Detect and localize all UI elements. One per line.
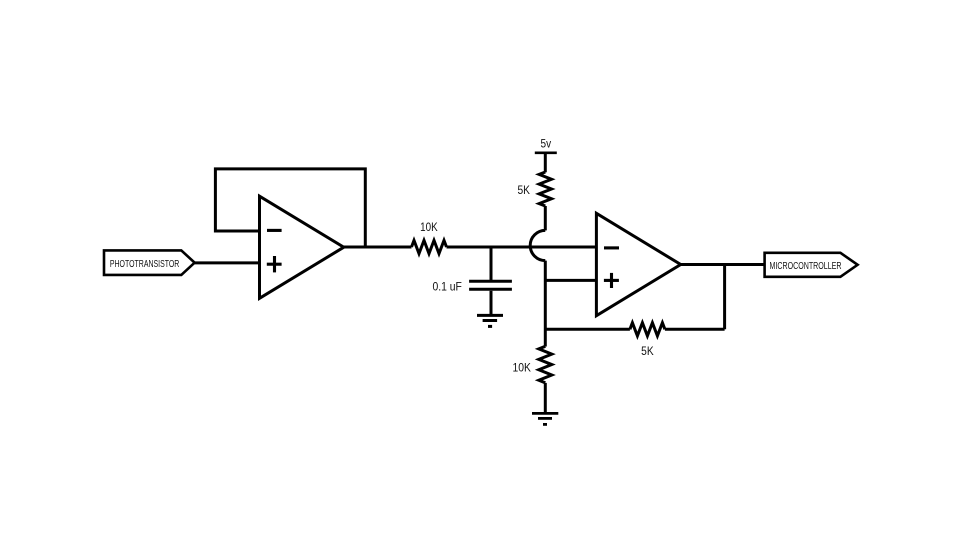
wire feedback left segment to node B [545,328,630,331]
resistor 10K (series) [412,220,447,254]
U1 plus pin label [267,256,282,272]
wire resistor 5K to hop [544,206,547,230]
resistor 5K (feedback) [630,323,665,358]
svg-text:PHOTOTRANSISTOR: PHOTOTRANSISTOR [110,259,180,270]
svg-text:5v: 5v [541,137,552,151]
ground (divider) [532,413,558,424]
wire resistor 10K to node A / U2 inverting input [447,246,597,249]
U2 plus pin label [604,273,619,288]
wire hop over signal wire [530,230,545,260]
wire 5v to resistor 5K [544,154,547,173]
node flag PHOTOTRANSISTOR [104,250,195,275]
svg-text:0.1 uF: 0.1 uF [433,279,462,293]
resistor 10K (pull-down) [513,346,552,383]
svg-text:5K: 5K [518,183,531,197]
U2 minus pin label [604,246,619,249]
wire U2 output to flag [680,263,765,266]
svg-text:MICROCONTROLLER: MICROCONTROLLER [770,261,842,272]
U1 minus pin label [267,229,282,232]
wire feedback right segment [665,328,725,331]
wire U1 feedback loop (output to inverting input) [215,169,365,247]
capacitor 0.1 uF [433,279,512,293]
resistor 5K (pull-up) [518,172,552,206]
svg-text:10K: 10K [513,360,531,374]
power 5v [535,137,557,153]
wire node A down to capacitor [490,247,493,280]
ground (capacitor) [477,315,503,326]
wire U1 output to resistor 10K [343,246,412,249]
wire resistor 10K to ground [544,383,547,412]
wire U2 output down to feedback [723,265,726,330]
wire node B to U2 non-inverting input [545,279,596,282]
wire hop to divider node B [544,261,547,347]
svg-text:10K: 10K [420,220,438,234]
op-amp U2 [596,213,680,315]
svg-text:5K: 5K [641,344,654,358]
wire phototransistor to op-amp U1 + input [194,261,260,264]
node flag MICROCONTROLLER [765,253,858,277]
op-amp U1 [260,196,344,298]
wire capacitor to ground [490,291,493,314]
